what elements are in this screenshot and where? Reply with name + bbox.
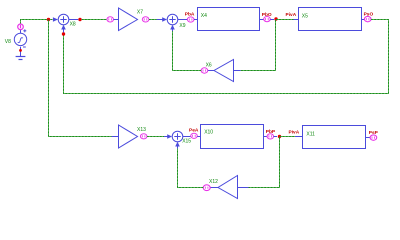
wire X13 to X15	[147, 136, 164, 138]
pin X7 input	[107, 17, 114, 22]
label net PbO	[262, 12, 272, 18]
arrow into X8 left	[53, 17, 58, 22]
pin X13 output	[140, 134, 147, 139]
wire blue into X5	[294, 19, 299, 21]
wire blue into X12 base	[238, 187, 249, 189]
gain X6	[214, 60, 234, 82]
pin X6 output	[201, 68, 208, 73]
label X11	[306, 131, 315, 137]
arrow into X9 bottom	[170, 25, 175, 32]
arrow into X15 bottom	[175, 142, 180, 149]
gain X12	[218, 176, 238, 199]
pin X10 output	[267, 134, 274, 139]
block X5	[299, 8, 362, 31]
label X9	[179, 23, 185, 29]
label net PsO	[364, 11, 374, 17]
wire X9 output	[178, 19, 188, 21]
pin bubble V8 top	[18, 24, 24, 30]
arrow into X15 left	[167, 134, 172, 139]
summing junction X8	[58, 14, 69, 25]
svg-text:X10: X10	[204, 130, 213, 136]
wire to X7	[82, 19, 107, 21]
wire X12 apex to pin	[210, 187, 218, 189]
label net PivA	[286, 12, 297, 18]
block X4	[198, 8, 260, 31]
node X10 out	[278, 135, 281, 138]
wire blue into X15	[164, 136, 168, 138]
label X4	[201, 13, 207, 19]
wire X15 output	[183, 136, 191, 138]
summing junction X9	[167, 14, 178, 25]
wire X4 output	[260, 19, 264, 21]
wire blue into X9	[157, 19, 163, 21]
wire X7 to X9	[149, 19, 157, 21]
label net PsP	[369, 130, 379, 136]
arrow into X8 bottom	[61, 25, 66, 32]
voltage source V8	[14, 29, 26, 56]
block X10	[201, 125, 264, 149]
svg-text:PivA: PivA	[286, 12, 297, 18]
label net PbA	[185, 12, 195, 18]
pin X4 output	[264, 17, 271, 22]
label net PeA	[189, 127, 199, 133]
label X8	[70, 22, 76, 28]
svg-text:X11: X11	[306, 131, 315, 137]
svg-text:X8: X8	[70, 22, 76, 28]
wire X6 apex to pin	[208, 70, 214, 72]
ground	[16, 57, 26, 60]
summing junction X15	[172, 131, 183, 142]
label net PbP	[266, 129, 276, 135]
wire X5 output	[362, 19, 365, 21]
wire X8 output	[69, 19, 78, 21]
wire X6 to X9 bottom	[173, 31, 202, 70]
node X8 out	[78, 18, 81, 21]
svg-text:V8: V8	[5, 39, 11, 45]
wire pin to X7	[114, 19, 119, 21]
wire node to X11	[280, 136, 296, 138]
wire X4out down to X6	[241, 20, 276, 71]
wire blue into X6 base	[234, 70, 241, 72]
node X4 out	[274, 17, 277, 20]
wire branch to lower channel	[49, 20, 112, 137]
label X15	[182, 139, 191, 145]
wire pin to node	[274, 136, 277, 138]
node A	[47, 18, 50, 21]
svg-text:X13: X13	[137, 127, 146, 133]
svg-text:PeA: PeA	[189, 127, 199, 133]
wire X12 to X15 bottom	[178, 149, 204, 188]
wire blue into X13	[112, 136, 119, 138]
arrow into X9 left	[162, 17, 167, 22]
label net PivA lower	[289, 129, 300, 135]
wire source to X8	[21, 20, 53, 25]
gain X7	[119, 8, 138, 31]
wire pin to X4	[194, 19, 198, 21]
wire node to X5	[276, 19, 294, 21]
block X11	[303, 126, 366, 149]
wire feedback top loop	[64, 20, 389, 94]
svg-text:X5: X5	[302, 13, 308, 19]
svg-text:X9: X9	[179, 23, 185, 29]
gain X13	[119, 125, 138, 148]
wire X11 output	[366, 137, 371, 139]
svg-text:PivA: PivA	[289, 129, 300, 135]
pin X5 output	[364, 16, 371, 21]
wire blue into X11	[295, 136, 303, 138]
pin X12 output	[203, 185, 210, 191]
label X10	[204, 130, 213, 136]
label X7	[137, 10, 143, 16]
svg-text:X12: X12	[209, 179, 218, 185]
label X5	[302, 13, 308, 19]
node below X8	[62, 32, 65, 35]
pin X11 output	[370, 135, 377, 140]
label X13	[137, 127, 146, 133]
wire pin to X10	[197, 136, 200, 138]
wire node to X8 bottom	[63, 31, 65, 33]
pin X9 output	[187, 17, 194, 22]
label X6	[206, 62, 212, 68]
wire pin to node	[270, 19, 274, 21]
label V8	[5, 39, 11, 45]
wire X10out down to X12	[249, 137, 280, 188]
pin X7 output	[142, 17, 149, 22]
svg-text:PbO: PbO	[262, 12, 272, 18]
svg-text:X6: X6	[206, 62, 212, 68]
node below V8	[19, 49, 22, 52]
svg-text:X4: X4	[201, 13, 207, 19]
pin X15 output	[191, 133, 198, 138]
wire X10 output	[264, 136, 268, 138]
svg-text:X15: X15	[182, 139, 191, 145]
svg-text:X7: X7	[137, 10, 143, 16]
label X12	[209, 179, 218, 185]
